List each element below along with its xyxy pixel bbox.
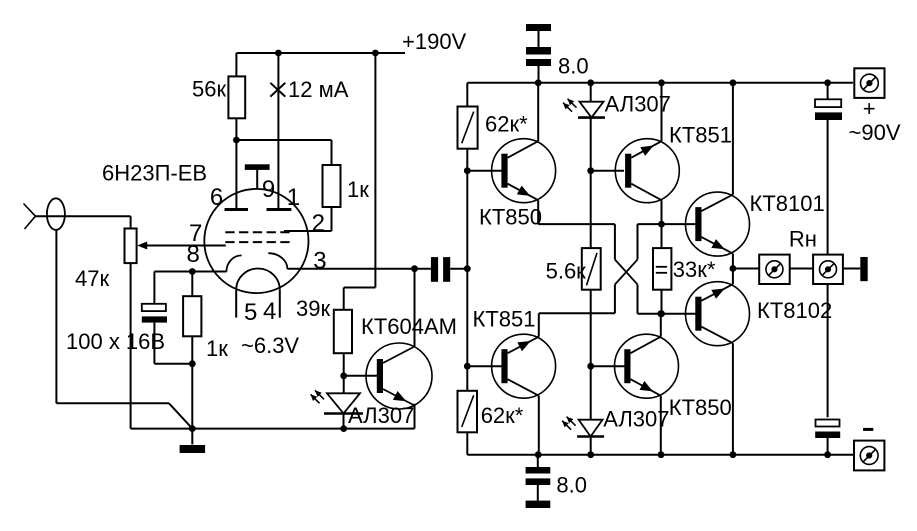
- svg-text:56к: 56к: [192, 77, 226, 102]
- svg-text:1к: 1к: [206, 336, 228, 361]
- svg-text:39к: 39к: [296, 296, 330, 321]
- svg-text:АЛ307: АЛ307: [605, 92, 671, 117]
- svg-text:4: 4: [263, 298, 276, 325]
- svg-text:47к: 47к: [75, 266, 109, 291]
- svg-text:8.0: 8.0: [556, 473, 587, 498]
- svg-text:100 x 16В: 100 x 16В: [66, 329, 165, 354]
- svg-text:Rн: Rн: [789, 227, 817, 252]
- svg-text:5: 5: [244, 299, 257, 326]
- svg-text:3: 3: [313, 248, 326, 275]
- svg-text:62к*: 62к*: [481, 403, 524, 428]
- svg-text:КТ851: КТ851: [669, 122, 732, 147]
- svg-text:КТ8101: КТ8101: [750, 191, 825, 216]
- svg-text:2: 2: [312, 210, 325, 237]
- svg-text:+: +: [863, 96, 876, 121]
- svg-text:1: 1: [287, 184, 300, 211]
- svg-text:АЛ307: АЛ307: [348, 403, 414, 428]
- svg-text:~6.3V: ~6.3V: [241, 333, 299, 358]
- svg-text:8.0: 8.0: [558, 54, 589, 79]
- svg-text:КТ850: КТ850: [669, 395, 732, 420]
- svg-text:+190V: +190V: [402, 29, 467, 54]
- svg-text:5.6к: 5.6к: [546, 258, 587, 283]
- svg-text:6Н23П-ЕВ: 6Н23П-ЕВ: [102, 161, 207, 186]
- svg-text:62к*: 62к*: [485, 112, 528, 137]
- svg-text:КТ850: КТ850: [479, 205, 542, 230]
- svg-text:9: 9: [262, 176, 275, 203]
- svg-text:6: 6: [210, 184, 223, 211]
- svg-text:8: 8: [187, 241, 200, 268]
- svg-text:КТ851: КТ851: [473, 307, 536, 332]
- svg-text:12 мА: 12 мА: [288, 77, 349, 102]
- svg-text:КТ8102: КТ8102: [757, 298, 832, 323]
- svg-text:АЛ307: АЛ307: [603, 406, 669, 431]
- svg-text:33к*: 33к*: [673, 257, 716, 282]
- svg-text:~90V: ~90V: [849, 120, 901, 145]
- svg-text:1к: 1к: [347, 177, 369, 202]
- svg-text:КТ604АМ: КТ604АМ: [361, 314, 457, 339]
